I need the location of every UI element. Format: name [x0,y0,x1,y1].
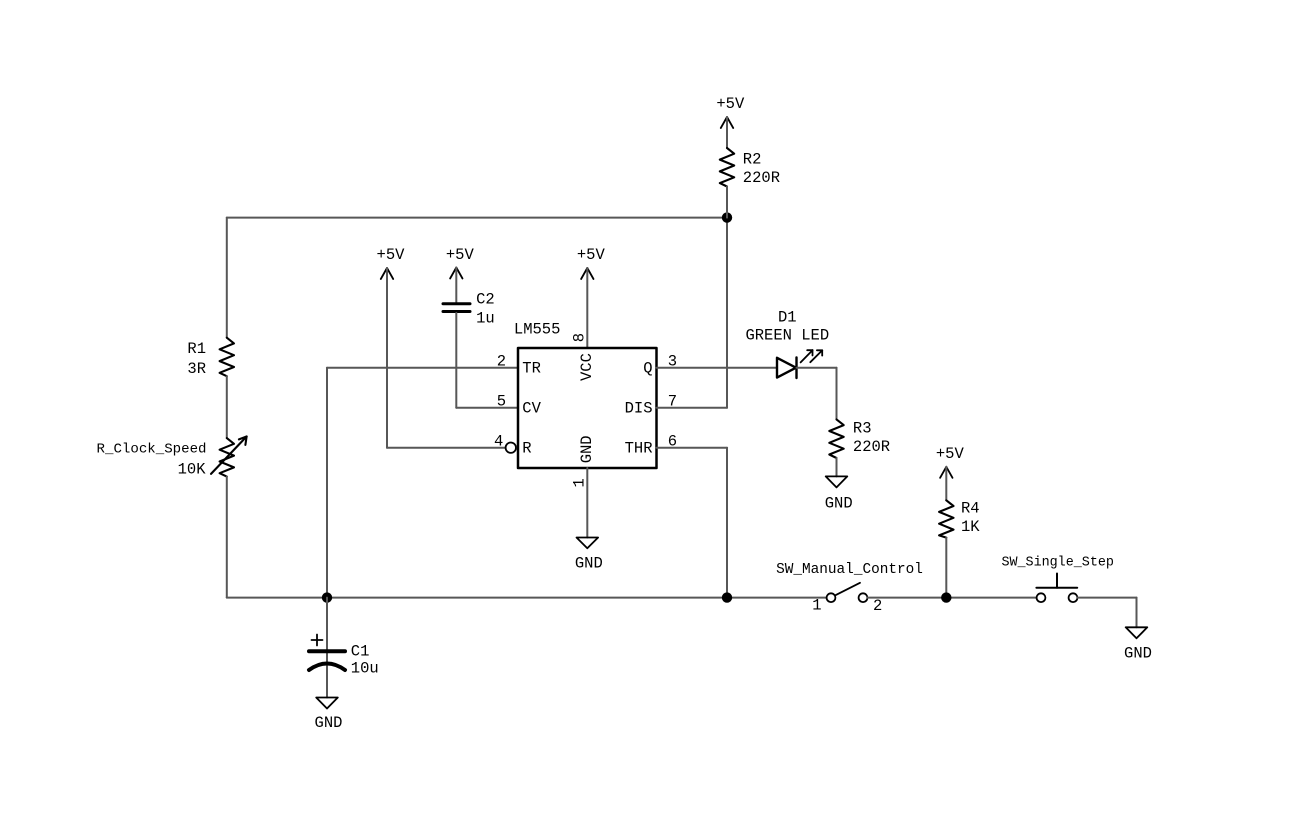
wire bottom rail right [1077,597,1136,599]
svg-text:10K: 10K [178,461,207,479]
wire C1 stem [326,598,328,698]
svg-text:+5V: +5V [716,95,745,113]
svg-text:GND: GND [315,714,343,732]
svg-text:1K: 1K [961,518,980,536]
wire DIS vertical [726,218,728,408]
wire Q output [657,367,778,369]
svg-text:R2: R2 [743,151,762,169]
wire R4 lower [945,538,947,598]
wire CV horizontal [456,407,518,409]
capacitor C1 [309,635,345,671]
svg-text:GND: GND [825,494,853,512]
wire THR horizontal [657,447,728,449]
power +5V (VCC) [581,268,593,279]
wire R2 upper [726,117,728,148]
svg-text:4: 4 [494,432,503,450]
svg-text:10u: 10u [351,660,379,678]
op-amp U1 LM555 body [518,348,657,468]
node junction C1 [322,592,332,602]
svg-text:TR: TR [522,360,541,378]
switch SW_Manual_Control [827,583,868,602]
svg-text:+5V: +5V [936,445,965,463]
ground right [1126,627,1148,638]
svg-text:C2: C2 [476,291,495,309]
node junction bottom rail THR [722,592,732,602]
wire bottom rail left [227,597,827,599]
svg-text:R1: R1 [187,340,206,358]
ground below R3 [826,476,848,487]
wire R4 upper [945,467,947,501]
svg-text:SW_Single_Step: SW_Single_Step [1001,555,1114,570]
power +5V (C2) [450,268,462,279]
wire TR horizontal [327,367,518,369]
svg-text:1: 1 [570,478,588,487]
wire left vertical lower [226,477,228,598]
svg-text:3R: 3R [187,360,206,378]
LED arrows D1 [801,350,823,362]
wire R2 lower [726,187,728,218]
node junction R4 [941,592,951,602]
wire C2 upper [455,268,457,303]
svg-text:R: R [522,440,531,458]
wire R3 lower [836,458,838,476]
svg-text:220R: 220R [853,438,890,456]
svg-text:+5V: +5V [377,246,406,264]
svg-text:C1: C1 [351,643,370,661]
svg-text:GND: GND [1124,644,1152,662]
wire bottom rail middle [867,597,1036,599]
wire C2 lower [455,313,457,408]
svg-text:GND: GND [575,555,603,573]
svg-text:2: 2 [873,597,882,615]
capacitor C2 [443,304,470,312]
resistor R4 [939,500,953,537]
svg-text:D1: D1 [778,309,797,327]
resistor R2 [720,148,734,187]
wire R pin horizontal [387,447,506,449]
wire THR vertical [726,448,728,598]
svg-text:GND: GND [578,435,596,463]
svg-text:R3: R3 [853,420,872,438]
power +5V (R2) [721,117,733,128]
svg-text:Q: Q [643,360,652,378]
wire D1 to corner [797,367,837,369]
svg-text:2: 2 [497,352,506,370]
wire left vertical upper [226,218,228,338]
svg-text:LM555: LM555 [514,320,561,338]
diode D1 [777,357,797,378]
svg-text:SW_Manual_Control: SW_Manual_Control [776,562,923,578]
potentiometer R_Clock_Speed [211,437,247,477]
wire GND pin [586,468,588,538]
ground below U1 [577,538,599,549]
svg-text:+5V: +5V [577,246,606,264]
svg-text:VCC: VCC [578,353,596,381]
svg-text:R_Clock_Speed: R_Clock_Speed [97,442,207,458]
svg-text:5: 5 [497,392,506,410]
resistor R3 [829,419,843,458]
svg-text:1u: 1u [476,310,495,328]
svg-text:DIS: DIS [625,400,653,418]
node junction top rail R2 [722,212,732,222]
wire TR vertical [326,368,328,598]
svg-text:THR: THR [625,440,653,458]
wire corner down to R3 [836,368,838,420]
power +5V (R4) [940,467,952,478]
pin 4 inversion bubble [506,443,516,453]
svg-text:GREEN LED: GREEN LED [745,327,829,345]
wire DIS horizontal [657,407,728,409]
ground below C1 [316,698,338,709]
power +5V (R pin) [381,268,393,279]
wire right gnd drop [1136,598,1138,628]
wire VCC vertical [586,268,588,348]
switch SW_Single_Step [1036,574,1077,603]
svg-text:CV: CV [522,400,541,418]
svg-text:8: 8 [570,333,588,342]
wire top rail [227,217,727,219]
svg-text:220R: 220R [743,169,780,187]
svg-text:+5V: +5V [446,246,475,264]
svg-text:1: 1 [812,597,821,615]
resistor R1 [220,338,234,377]
wire left vertical middle [226,376,228,438]
wire R pin vertical [386,268,388,448]
svg-text:R4: R4 [961,500,980,518]
